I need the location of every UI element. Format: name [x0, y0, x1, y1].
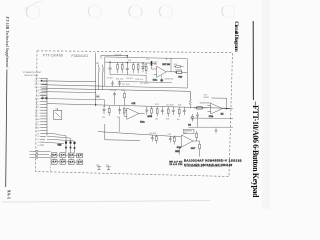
- svg-text:C11 10/16: C11 10/16: [140, 83, 148, 85]
- connector CN101 pin labels: [35, 77, 41, 147]
- svg-text:Circuit Diagram: Circuit Diagram: [233, 21, 239, 52]
- capacitor C19: [149, 133, 156, 142]
- node dot bus left: [95, 104, 96, 105]
- schematic dashed border: [36, 51, 233, 177]
- svg-text:SW 2: SW 2: [35, 104, 39, 106]
- svg-text:YA 2-6 PIN: YA 2-6 PIN: [169, 163, 182, 166]
- test point TP2: [106, 165, 111, 170]
- svg-text:C19 473: C19 473: [149, 133, 156, 135]
- svg-text:473: 473: [166, 119, 169, 121]
- svg-text:C20: C20: [168, 134, 171, 136]
- capacitor C13: [103, 106, 106, 114]
- switch S5: [52, 160, 58, 165]
- svg-text:KEY D: KEY D: [35, 87, 41, 89]
- page corner curl top-left: [24, 1, 43, 9]
- wire net E (row8 to bus): [47, 99, 105, 107]
- switch S8: [77, 160, 83, 165]
- capacitor C15: [161, 107, 164, 115]
- switch S1: [51, 153, 57, 158]
- resistor R16: [174, 64, 184, 68]
- svg-text:R17 220: R17 220: [162, 64, 170, 66]
- resistor R25: [178, 107, 180, 117]
- wire net C end bend: [189, 91, 191, 99]
- resistor R14: [137, 63, 139, 73]
- wire net D (row5): [42, 92, 96, 93]
- resistor R28: [155, 134, 157, 143]
- resistor R15: [144, 63, 148, 74]
- svg-text:KEY A: KEY A: [35, 77, 41, 80]
- wire red tap: [178, 148, 180, 154]
- svg-text:TP2: TP2: [106, 165, 109, 167]
- left footer rule: [6, 70, 7, 188]
- svg-text:C9 104: C9 104: [107, 78, 113, 80]
- resistor R11: [117, 62, 119, 73]
- op-amp IC2b label box: [183, 129, 194, 134]
- capacitor C18: [196, 112, 199, 120]
- wires circles to switch matrix: [38, 151, 51, 157]
- svg-text:C15 R24: C15 R24: [166, 104, 173, 106]
- middle bus wire: [47, 104, 230, 109]
- svg-text:NJM4558D-V: NJM4558D-V: [200, 103, 212, 105]
- svg-text:RED: RED: [175, 151, 180, 153]
- pin circle P2: [36, 153, 38, 155]
- svg-text:FT-10B Technical Supplement: FT-10B Technical Supplement: [5, 17, 9, 69]
- box A internal rail: [105, 62, 157, 63]
- svg-text:10k: 10k: [155, 118, 158, 120]
- diode D3: [191, 114, 194, 122]
- svg-text:47k: 47k: [102, 117, 105, 119]
- node J1 junction dot: [41, 80, 43, 82]
- svg-text:IC2a: IC2a: [140, 122, 145, 124]
- node dot output: [175, 72, 176, 73]
- switch S4: [77, 153, 83, 158]
- wire riser x119: [118, 118, 120, 132]
- resistor R27: [194, 107, 208, 109]
- svg-text:OUT: OUT: [191, 148, 196, 150]
- inner feedback wire: [166, 57, 171, 72]
- svg-text:C10 47u: C10 47u: [126, 78, 133, 80]
- pin stubs left of circles: [30, 151, 36, 157]
- svg-text:K1: K1: [38, 136, 40, 138]
- red label C13: [154, 62, 159, 66]
- connector CN101 header label: [23, 72, 43, 77]
- svg-text:SEL 0: SEL 0: [35, 110, 40, 112]
- svg-text:K2: K2: [38, 139, 40, 141]
- resistor R30: [196, 131, 198, 141]
- capacitor C13k dark bar: [151, 61, 153, 66]
- capacitor C9: [109, 62, 112, 74]
- binder hole 5: [222, 5, 235, 18]
- connector CN102 pins: [66, 144, 75, 153]
- svg-text:F3634101: F3634101: [72, 54, 89, 58]
- ground G1: [214, 128, 217, 133]
- wire top stub with node: [101, 55, 127, 58]
- transistor Q2 marks at riser: [96, 95, 100, 99]
- svg-text:C12: C12: [146, 59, 149, 61]
- svg-text:D2: D2: [56, 109, 58, 111]
- svg-text:TP1: TP1: [96, 165, 99, 167]
- node dot top stub: [126, 55, 128, 57]
- wire net B (row3 to box A): [42, 85, 105, 87]
- op-amp IC1b: [211, 103, 223, 114]
- op-amp IC2a: [127, 108, 139, 119]
- capacitor C14: [118, 106, 121, 114]
- wire riser x226.5: [212, 98, 227, 109]
- wire box A to bus corner: [105, 124, 140, 140]
- resistor network left of box A: [96, 63, 104, 90]
- switch S6: [60, 160, 66, 165]
- op-amp IC2b output: [193, 140, 200, 142]
- op-amp IC2a leads: [125, 111, 145, 117]
- bottom rail right cluster: [188, 118, 233, 127]
- capacitor C22: [145, 107, 148, 115]
- binder hole 3: [129, 5, 142, 18]
- svg-text:R11 10k: R11 10k: [116, 79, 123, 81]
- box A caps pair lower: [111, 81, 121, 87]
- test point TP1: [96, 165, 101, 170]
- resistor R12: [121, 62, 123, 73]
- connector CN101 pin ticks: [40, 78, 47, 145]
- red label C17: [204, 94, 210, 99]
- svg-text:9A-1: 9A-1: [6, 190, 11, 199]
- diode D1: [142, 63, 145, 72]
- svg-text:KEY C: KEY C: [35, 84, 41, 86]
- right column rule: [252, 21, 254, 100]
- label specks under box A: [122, 79, 174, 86]
- svg-text:SEL 1: SEL 1: [35, 113, 40, 115]
- capacitor C17m: [183, 107, 186, 115]
- pin circle P1: [36, 150, 38, 152]
- svg-text:BA10324AF NJM4558D-V 1SS133: BA10324AF NJM4558D-V 1SS133: [184, 158, 242, 162]
- svg-text:R33: R33: [122, 90, 125, 92]
- bottom long wire: [98, 132, 181, 137]
- svg-text:COM: COM: [36, 130, 41, 132]
- capacitor C8: [45, 97, 48, 100]
- op-amp IC1b leads: [208, 106, 233, 112]
- block box A: [105, 57, 188, 88]
- svg-text:R23: R23: [155, 104, 158, 106]
- resistor R23: [156, 107, 158, 117]
- capacitor C20: [168, 134, 172, 143]
- node dot riser: [226, 108, 227, 109]
- node dots on rail: [109, 62, 152, 64]
- svg-text:SW 1: SW 1: [35, 101, 39, 103]
- svg-text:10/16: 10/16: [204, 97, 210, 99]
- capacitor C16: [172, 107, 175, 115]
- bottom page edge shadow: [2, 201, 210, 203]
- svg-text:R16: R16: [174, 64, 177, 66]
- switch risers to CN102: [54, 152, 80, 160]
- svg-text:224: 224: [117, 117, 120, 119]
- svg-text:K3: K3: [38, 142, 40, 144]
- connector CN101 bus line: [46, 78, 48, 136]
- svg-text:CN101 FT-10B: CN101 FT-10B: [24, 75, 38, 77]
- capacitor C21 above bus: [110, 90, 117, 105]
- binder hole 2: [88, 5, 101, 18]
- switch S7: [69, 160, 75, 165]
- labels under parts row: [102, 104, 181, 121]
- wire net A (row1 to vertical riser): [42, 80, 96, 83]
- switch matrix S1-S6: [51, 152, 110, 170]
- switch row link wires: [57, 155, 77, 162]
- switch S2: [60, 153, 66, 158]
- pin circle P3: [36, 156, 38, 158]
- wire bar to opamp: [152, 66, 157, 69]
- svg-text:R13 10k: R13 10k: [115, 54, 122, 56]
- resistor R22: [123, 106, 125, 116]
- op-amp IC1a input stubs: [154, 72, 177, 75]
- svg-text:FTT-10/A06: FTT-10/A06: [43, 53, 63, 57]
- op-amp IC2b: [181, 135, 193, 147]
- svg-text:10k: 10k: [128, 60, 131, 62]
- switch S3: [68, 153, 74, 158]
- box A lower rail 2: [118, 75, 172, 82]
- svg-text:–FTT-10/A06 6-Button Keypad: –FTT-10/A06 6-Button Keypad: [251, 101, 260, 199]
- binder hole 4: [159, 5, 172, 18]
- resistor R32: [151, 107, 153, 117]
- svg-text:C7 104: C7 104: [39, 95, 45, 97]
- svg-text:TO REMOTE CONT: TO REMOTE CONT: [23, 72, 43, 74]
- resistor R29: [173, 135, 175, 144]
- svg-text:NJM4558D: NJM4558D: [165, 79, 175, 81]
- capacitor C10: [126, 63, 129, 75]
- svg-text:R18 100: R18 100: [175, 70, 182, 72]
- svg-text:KEY B: KEY B: [35, 81, 41, 83]
- legend underline marks: [185, 166, 222, 168]
- resistor R13: [132, 63, 134, 73]
- svg-text:CN2: CN2: [58, 145, 62, 147]
- connector CN102 pads: [65, 141, 76, 148]
- wire riser x95.7: [95, 53, 97, 107]
- resistor R21: [108, 106, 110, 116]
- op-amp IC1a: [157, 66, 167, 77]
- binder hole 1: [26, 6, 39, 19]
- resistor R18: [175, 70, 187, 74]
- svg-text:4.7k: 4.7k: [132, 103, 136, 105]
- svg-text:R15 100k: R15 100k: [122, 84, 130, 86]
- relay RY1 box: [54, 108, 62, 119]
- svg-text:R25: R25: [178, 105, 181, 107]
- resistor R33 above bus: [122, 90, 126, 105]
- svg-text:100k: 100k: [148, 116, 152, 118]
- capacitor C7: [39, 95, 45, 100]
- section dashed divider: [49, 155, 51, 172]
- resistor R31 chain: [199, 141, 201, 157]
- wire net C (long bottom wire): [42, 88, 191, 91]
- box A bottom rail: [110, 74, 146, 77]
- svg-text:DTC114ES 2SC1815-GR RN4148: DTC114ES 2SC1815-GR RN4148: [184, 163, 232, 167]
- box A small labels row: [107, 54, 150, 81]
- resistor R24: [167, 107, 169, 117]
- svg-text:R14 4.7k: R14 4.7k: [136, 79, 144, 81]
- svg-text:SEL 2: SEL 2: [35, 116, 40, 118]
- svg-text:VR1: VR1: [96, 63, 100, 65]
- wire bundle connector to CN102: [44, 133, 75, 143]
- svg-text:10k: 10k: [177, 119, 180, 121]
- svg-text:C21 104: C21 104: [110, 90, 117, 92]
- resistor R26 zigzag: [189, 91, 191, 108]
- svg-text:K4: K4: [38, 145, 40, 147]
